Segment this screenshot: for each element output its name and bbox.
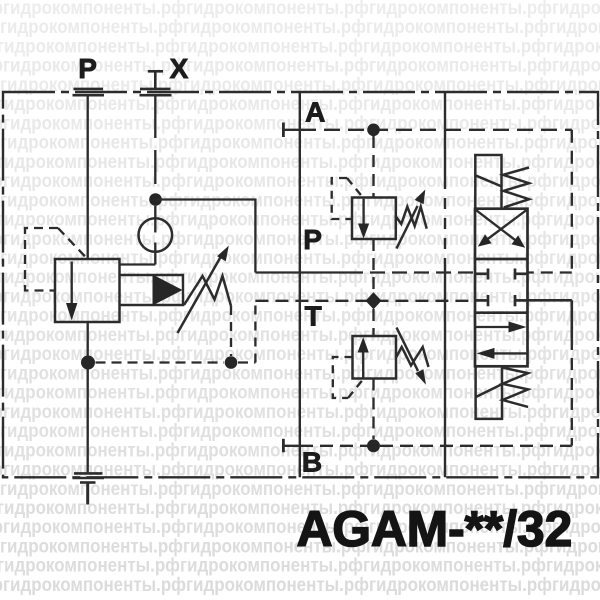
gauge connection lower to main valve [120,243,156,265]
wire A to relief valve RV1 (dashed) [372,136,374,198]
port X symbol with plug [140,71,172,95]
relief valve RV1 spring [396,207,427,229]
wire A bypass right (dashed vertical) [528,130,572,273]
svg-text:гидрокомпоненты.рфгидрокомпоне: гидрокомпоненты.рфгидрокомпоненты.рфгидр… [0,17,600,38]
port P symbol [73,89,105,95]
svg-text:гидрокомпоненты.рфгидрокомпоне: гидрокомпоненты.рфгидрокомпоненты.рфгидр… [0,556,600,577]
svg-text:T: T [305,301,322,332]
section divider line left [299,92,301,477]
svg-text:X: X [170,53,189,84]
relief valve RV2 adjustment arrow [397,328,427,385]
directional valve DV1 top spring [475,168,529,208]
svg-text:гидрокомпоненты.рфгидрокомпоне: гидрокомпоненты.рфгидрокомпоненты.рфгидр… [0,0,600,19]
DV1 position 2 blocked ports [475,269,528,307]
wire B line [285,445,572,447]
port B tick [282,439,285,453]
wire T right link to B [528,300,572,446]
wire RV1 drain to T (dashed) [372,239,374,293]
tank symbol under boundary [73,473,105,504]
pilot relief valve PV1 housing [120,275,184,305]
wire P line horizontal [255,271,475,273]
directional valve DV1 top spring chamber [475,155,501,208]
pilot relief valve PV1 poppet cone [153,275,183,306]
section divider line right [444,92,446,477]
svg-text:A: A [305,97,325,128]
gauge G1 (measuring point circle) [139,218,173,252]
wire T line horizontal (dashed) [255,300,475,302]
wire T to relief valve RV2 (dashed) [372,309,374,336]
node T diamond junction [366,292,382,309]
label T (middle) [305,301,322,332]
wire X pilot line (dashed) [154,97,156,185]
wire X junction to P line corner [156,200,256,273]
port A tick [282,123,285,138]
wire pilot valve drain (dashed) [230,306,232,356]
relief valve RV2 pilot dashed box [333,357,364,398]
svg-text:P: P [78,53,97,84]
node drain junction dot right [225,356,238,369]
node A junction dot [367,124,380,137]
title AGAM-**/32 [297,501,573,557]
relief valve RV1 adjustment arrow [397,190,426,249]
svg-text:AGAM-**/32: AGAM-**/32 [297,501,573,557]
pilot relief valve PV1 spring [184,276,231,306]
node B junction dot [367,439,380,452]
node X junction dot [149,193,162,206]
main relief valve body V1 (left) [55,259,120,322]
pilot relief valve PV1 adjustment arrow [178,246,229,333]
wire P supply vertical [87,97,89,260]
directional valve DV1 bottom spring chamber [476,366,502,419]
label P (middle) [303,224,322,255]
DV1 position 3 flow arrows [476,322,528,359]
label B [302,447,322,478]
wire A line [285,129,572,131]
manifold enclosure frame (dash-dot) [3,92,598,477]
wire RV2 to B junction (dashed) [372,379,374,440]
svg-text:B: B [302,447,322,478]
DV1 position 1 crossed arrows [475,209,528,247]
wire drain line to T (dashed) [96,301,256,363]
label P (top port) [78,53,97,84]
main valve V1 flow arrow [66,262,77,321]
wire main valve outlet vertical [87,322,89,473]
label A [305,97,325,128]
pilot line dashed box of V1 [25,228,87,291]
directional valve DV1 bottom spring [476,368,528,407]
label X (top port) [170,53,189,84]
svg-text:P: P [303,224,322,255]
directional valve DV1 body outline [475,209,528,367]
relief valve RV2 body [353,336,397,379]
gauge connection upper [154,206,156,233]
svg-text:гидрокомпоненты.рфгидрокомпоне: гидрокомпоненты.рфгидрокомпоненты.рфгидр… [0,575,600,596]
relief valve RV1 body [352,198,396,240]
relief valve RV2 spring [396,347,429,367]
node drain junction dot left [81,356,95,370]
relief valve RV1 pilot dashed box [332,178,363,219]
relief valve RV2 flow arrow [358,337,369,378]
relief valve RV1 flow arrow [358,199,369,239]
